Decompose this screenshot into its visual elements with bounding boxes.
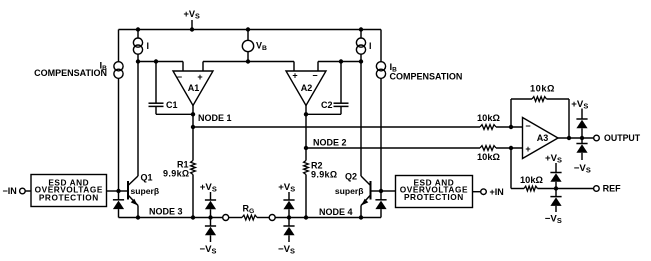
resistor R1 <box>191 161 196 175</box>
wire NODE 2 line <box>306 147 480 149</box>
svg-text:−: − <box>177 72 182 82</box>
wire C1 bottom lead <box>155 106 157 114</box>
transistor Q2 emitter <box>361 195 371 206</box>
transistor Q1 collector <box>128 176 138 186</box>
wire R1 bottom <box>192 175 194 218</box>
svg-text:10kΩ: 10kΩ <box>530 84 555 94</box>
node rail-VB <box>246 27 250 31</box>
terminal RG left <box>223 215 229 221</box>
svg-text:+: + <box>197 72 202 82</box>
wire Q1 collector from I-left <box>137 62 139 177</box>
svg-text:10kΩ: 10kΩ <box>520 175 544 185</box>
svg-text:PROTECTION: PROTECTION <box>404 192 464 202</box>
svg-text:Q2: Q2 <box>345 172 357 182</box>
wire +VS stub to rail <box>191 20 193 30</box>
wire VB bottom stub <box>247 52 249 62</box>
svg-text:−VS: −VS <box>574 163 591 175</box>
node VB bottom <box>246 59 250 63</box>
wire C1 top lead <box>155 62 157 104</box>
svg-text:−VS: −VS <box>545 214 562 226</box>
current source I right <box>356 38 365 47</box>
op-amp A1 <box>173 71 213 106</box>
wire A3 plus down to REF <box>510 148 512 189</box>
node I-right bottom <box>359 59 363 63</box>
diode clamp right -VS <box>288 218 290 227</box>
wire I-left to A1 minus input <box>138 61 183 63</box>
node C2 top <box>339 59 343 63</box>
wire right rail corner down to IB source <box>380 30 382 62</box>
op-amp A3 <box>523 118 559 159</box>
svg-text:A1: A1 <box>188 83 200 93</box>
terminal REF <box>594 186 600 192</box>
svg-text:NODE 4: NODE 4 <box>319 207 353 217</box>
svg-text:+VS: +VS <box>545 153 562 165</box>
wire A2 minus to I-right <box>318 61 361 63</box>
node R1 on NODE 3 <box>191 215 195 219</box>
svg-text:A3: A3 <box>537 133 549 143</box>
resistor RG <box>242 215 257 220</box>
wire VB top stub <box>247 30 249 41</box>
ESD protection box left <box>31 175 107 207</box>
wire feedback up <box>510 99 512 127</box>
svg-text:Q1: Q1 <box>141 172 153 182</box>
svg-text:+VS: +VS <box>184 9 201 21</box>
wire top +VS rail <box>119 29 382 31</box>
svg-text:+: + <box>525 144 530 154</box>
svg-text:10kΩ: 10kΩ <box>477 152 501 162</box>
svg-text:REF: REF <box>603 184 622 194</box>
svg-text:OUTPUT: OUTPUT <box>604 133 641 143</box>
svg-text:+IN: +IN <box>490 187 504 197</box>
wire Q2 collector from I-right <box>360 62 362 177</box>
wire left rail corner down to IB source <box>118 30 120 62</box>
current source IB compensation right <box>376 62 385 71</box>
wire Q1 base lead <box>119 190 129 192</box>
svg-text:−VS: −VS <box>278 244 295 256</box>
wire RG left lead <box>228 217 242 219</box>
svg-text:−VS: −VS <box>200 244 217 256</box>
svg-text:C1: C1 <box>166 100 178 110</box>
node Q2 emitter on NODE 4 <box>359 215 363 219</box>
resistor 10k NODE1 to A3 <box>480 125 496 130</box>
wire IB-right down to input node <box>380 78 382 191</box>
wire Q2 base lead <box>371 190 382 192</box>
svg-text:+VS: +VS <box>278 182 295 194</box>
node rail-I left <box>136 27 140 31</box>
node I-left bottom <box>136 59 140 63</box>
svg-text:10kΩ: 10kΩ <box>477 113 501 123</box>
wire NODE 1 line <box>193 126 480 128</box>
wire I-left bottom stub <box>137 54 139 62</box>
diode REF clamp -VS <box>555 189 557 197</box>
node A3 minus <box>509 125 513 129</box>
wire REF line <box>538 188 594 190</box>
transistor Q1 emitter <box>128 195 138 206</box>
svg-text:C2: C2 <box>321 100 333 110</box>
wire -IN to ESD box <box>25 190 31 192</box>
node Q2 base / +IN <box>379 189 383 193</box>
capacitor C2 <box>334 102 349 104</box>
node +VS on rail <box>190 27 194 31</box>
wire A1 output down <box>192 105 194 127</box>
diode -IN clamp to NODE 3 <box>118 191 120 200</box>
svg-text:COMPENSATION: COMPENSATION <box>34 68 107 78</box>
wire I-right top stub <box>360 30 362 39</box>
resistor R2 <box>304 161 309 175</box>
wire 10k to A3 plus <box>496 147 523 149</box>
wire Q2 emitter down <box>360 206 362 218</box>
svg-text:superβ: superβ <box>335 186 364 196</box>
svg-text:+VS: +VS <box>571 99 588 111</box>
wire C2 top lead <box>340 62 342 104</box>
svg-text:COMPENSATION: COMPENSATION <box>390 72 463 82</box>
svg-text:9.9kΩ: 9.9kΩ <box>311 169 337 179</box>
wire 10k to A3 minus <box>496 126 523 128</box>
resistor 10k NODE2 to A3 <box>480 146 496 151</box>
wire REF corner <box>511 188 524 190</box>
svg-text:−: − <box>312 71 317 81</box>
wire R2 bottom <box>305 175 307 218</box>
wire ESD box to Q1 base <box>107 190 119 192</box>
wire Q2 base to ESD box <box>381 190 396 192</box>
svg-text:+: + <box>292 71 297 81</box>
svg-text:I: I <box>147 41 150 51</box>
wire RG right lead <box>257 217 270 219</box>
node Q1 emitter on NODE 3 <box>136 215 140 219</box>
node C1 top <box>154 59 158 63</box>
wire A1 plus lead <box>202 62 204 72</box>
svg-text:−IN: −IN <box>3 186 17 196</box>
op-amp A2 <box>286 71 326 106</box>
node R2 on NODE 4 <box>304 215 308 219</box>
svg-text:9.9kΩ: 9.9kΩ <box>163 168 189 178</box>
wire A3 output <box>558 137 594 139</box>
node A3 plus <box>509 146 513 150</box>
node clamp on output <box>580 136 584 140</box>
diode output clamp -VS <box>581 138 583 144</box>
terminal OUTPUT <box>594 135 600 141</box>
node clamp right on NODE 4 <box>287 215 291 219</box>
transistor Q1 base bar <box>127 181 129 200</box>
node NODE 1 <box>191 125 195 129</box>
wire R2 top <box>305 148 307 161</box>
voltage source VB <box>242 40 253 51</box>
terminal RG right <box>269 215 275 221</box>
wire IB-left down to input node <box>118 78 120 191</box>
wire feedback down to output <box>568 99 570 138</box>
node rail-I right <box>359 27 363 31</box>
wire A2 minus lead <box>317 62 319 72</box>
svg-text:I: I <box>369 41 372 51</box>
wire NODE 3 rail <box>119 217 224 219</box>
wire ESD box to +IN terminal <box>473 191 481 193</box>
transistor Q2 collector <box>361 176 371 186</box>
wire R1 top <box>192 127 194 161</box>
svg-text:−: − <box>525 121 530 131</box>
wire I-right bottom stub <box>360 54 362 62</box>
diode clamp left -VS <box>210 218 212 227</box>
terminal -IN <box>20 188 26 194</box>
node feedback on output <box>567 136 571 140</box>
node Q1 base / -IN <box>116 189 120 193</box>
wire A1 minus lead <box>182 62 184 72</box>
terminal +IN <box>481 189 487 195</box>
node A1 output / C1 join <box>191 112 195 116</box>
svg-text:+VS: +VS <box>200 182 217 194</box>
svg-text:NODE 1: NODE 1 <box>198 113 232 123</box>
ESD protection box right <box>396 176 473 208</box>
wire C2 bottom lead <box>340 106 342 114</box>
wire Q1 emitter down <box>137 206 139 218</box>
svg-text:NODE 3: NODE 3 <box>149 207 183 217</box>
wire feedback top left <box>511 98 532 100</box>
capacitor C1 <box>149 102 164 104</box>
node REF clamp <box>554 186 558 190</box>
resistor 10k REF <box>524 186 538 191</box>
svg-text:NODE 2: NODE 2 <box>313 137 347 147</box>
svg-text:PROTECTION: PROTECTION <box>39 192 99 202</box>
wire A2 output down <box>305 105 307 148</box>
wire NODE 4 rail <box>275 217 381 219</box>
wire A1 plus to A2 plus (VB line) <box>203 61 294 63</box>
resistor 10k feedback <box>532 97 547 102</box>
wire A2 plus lead <box>293 62 295 72</box>
current source IB compensation left <box>114 62 123 71</box>
diode +IN clamp to NODE 4 <box>380 191 382 200</box>
wire I-left top stub <box>137 30 139 39</box>
current source I left <box>133 38 142 47</box>
svg-text:A2: A2 <box>301 83 313 93</box>
svg-text:superβ: superβ <box>131 186 160 196</box>
node NODE 2 <box>304 146 308 150</box>
transistor Q2 base bar <box>370 181 372 200</box>
node A2 output / C2 join <box>304 112 308 116</box>
wire feedback top right <box>547 98 570 100</box>
node clamp left on NODE 3 <box>208 215 212 219</box>
